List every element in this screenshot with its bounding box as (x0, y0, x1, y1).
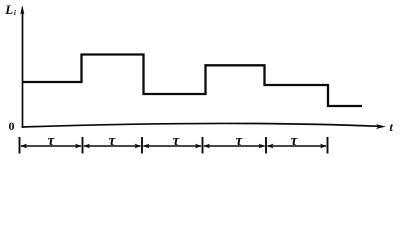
svg-text:0: 0 (9, 119, 15, 133)
dimension arrow interval 3 (143, 144, 202, 149)
tick at t=4tau (265, 137, 267, 154)
tick at t=5tau (327, 137, 329, 154)
dimension arrow interval 1 (20, 144, 82, 149)
svg-text:t: t (390, 120, 394, 134)
dimension arrow interval 5 (267, 144, 327, 149)
tick at t=2tau (141, 137, 143, 154)
tick at t=0 (19, 137, 21, 154)
dimension arrow interval 4 (203, 144, 265, 149)
svg-text:i: i (14, 9, 16, 17)
y-axis arrowhead (20, 5, 24, 15)
y-axis (22, 10, 24, 128)
tick at t=tau (82, 137, 84, 154)
axis label L_i (4, 2, 16, 17)
x-axis (22, 123, 379, 127)
waveform L_i(t) staircase (23, 55, 363, 107)
x-axis arrowhead (376, 124, 386, 129)
dimension arrow interval 2 (83, 144, 141, 149)
svg-text:L: L (4, 2, 13, 17)
tick at t=3tau (202, 137, 204, 154)
